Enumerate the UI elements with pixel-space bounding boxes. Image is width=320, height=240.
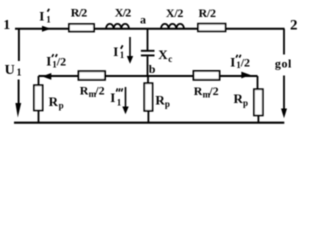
wire right Rp branch vertical xyxy=(257,76,260,123)
svg-text:R/2: R/2 xyxy=(199,6,217,20)
svg-text:R: R xyxy=(155,93,165,108)
resistor Rm/2 left xyxy=(79,71,106,80)
svg-text:c: c xyxy=(168,54,172,64)
arrow I''1/2 left (pointing left on middle wire) xyxy=(42,73,51,80)
svg-text:U: U xyxy=(5,63,15,78)
svg-text:I: I xyxy=(110,90,115,105)
svg-text:R: R xyxy=(49,94,59,109)
svg-text:1: 1 xyxy=(46,14,51,24)
svg-text:/2: /2 xyxy=(56,55,66,69)
svg-text:R: R xyxy=(80,84,89,98)
svg-text:1: 1 xyxy=(17,68,22,79)
svg-text:a: a xyxy=(140,12,146,26)
resistor R/2 left xyxy=(69,24,94,32)
svg-text:X: X xyxy=(158,47,168,62)
resistor Rm/2 right xyxy=(194,71,220,80)
wire middle horizontal from left Rp corner through node b to right Rp corner xyxy=(39,75,258,77)
svg-text:b: b xyxy=(149,62,156,76)
svg-text:I: I xyxy=(230,54,235,69)
label I'''1 xyxy=(110,88,122,107)
svg-text:R: R xyxy=(234,91,244,106)
svg-text:p: p xyxy=(243,98,248,108)
wire left Rp branch vertical xyxy=(38,76,40,123)
wire terminal 2 branch down (upper segment) xyxy=(283,29,285,55)
arrow gol (no-load current arrow, lower segment) xyxy=(283,76,285,110)
label I''1/2 right xyxy=(230,54,250,70)
label Rm/2 left xyxy=(80,84,105,99)
wire node a vertical down to capacitor xyxy=(147,29,149,50)
label Xc xyxy=(158,47,172,64)
arrow I'1 on top wire xyxy=(42,26,51,32)
label Rm/2 right xyxy=(194,84,219,99)
label Rp center xyxy=(155,93,170,110)
resistor Rp center xyxy=(144,83,152,111)
svg-text:2: 2 xyxy=(290,18,298,34)
resistor R/2 right xyxy=(198,24,226,32)
label U1 xyxy=(5,63,22,79)
svg-text:R: R xyxy=(194,84,203,98)
label Rp right xyxy=(234,91,249,108)
svg-text:1: 1 xyxy=(120,50,125,60)
label I'1 top xyxy=(39,9,51,25)
arrow I'''1 (current into center Rp) xyxy=(125,87,127,108)
voltage arrow U1 (left branch) xyxy=(18,29,20,104)
svg-text:gol: gol xyxy=(275,56,292,70)
wire top horizontal from terminal 1 to terminal 2 xyxy=(15,28,285,30)
resistor Rp left xyxy=(34,85,43,110)
svg-text:1: 1 xyxy=(117,97,122,107)
svg-text:p: p xyxy=(59,101,64,111)
svg-text:I: I xyxy=(46,54,51,69)
svg-text:X/2: X/2 xyxy=(115,6,132,20)
svg-text:1: 1 xyxy=(3,18,10,33)
inductor X/2 left xyxy=(106,24,129,29)
capacitor Xc plates xyxy=(141,51,155,56)
wire capacitor to node b and middle wire xyxy=(147,56,149,76)
svg-text:I: I xyxy=(39,9,44,24)
svg-text:/2: /2 xyxy=(94,84,104,98)
inductor X/2 right xyxy=(161,24,184,29)
wire center Rp branch vertical below node b xyxy=(147,76,149,123)
svg-text:I: I xyxy=(113,44,118,59)
arrow I''1/2 right (pointing right on middle wire) xyxy=(241,72,250,79)
wire bottom horizontal xyxy=(14,122,284,124)
svg-text:R/2: R/2 xyxy=(71,6,88,20)
svg-text:p: p xyxy=(165,99,170,109)
svg-text:/2: /2 xyxy=(240,55,250,69)
svg-text:/2: /2 xyxy=(208,84,218,98)
label I'1 middle xyxy=(113,44,125,60)
label Rp left xyxy=(49,94,64,111)
resistor Rp right xyxy=(254,89,263,115)
arrow I'1 middle (current into capacitor branch) xyxy=(129,37,131,57)
label I''1/2 left xyxy=(46,54,66,70)
svg-text:X/2: X/2 xyxy=(166,6,184,20)
